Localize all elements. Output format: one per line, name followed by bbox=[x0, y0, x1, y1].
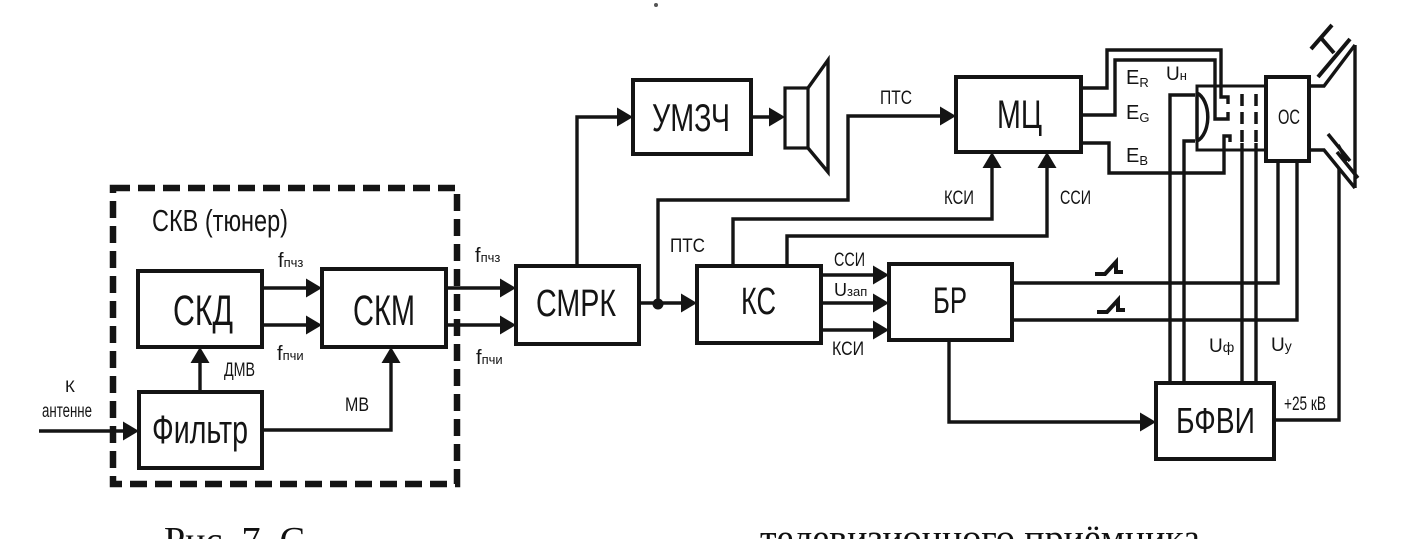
break symbol bottom bbox=[1328, 134, 1358, 178]
wire КС to БР ССИ bbox=[821, 273, 876, 276]
break symbol top bbox=[1311, 25, 1350, 77]
wire ДМВ Фильтр to СКД bbox=[198, 360, 201, 392]
svg-text:МВ: МВ bbox=[345, 395, 369, 416]
arrowhead КСИ КС-БР bbox=[873, 321, 889, 340]
arrowhead ПТС-МЦ bbox=[940, 107, 956, 126]
wire antenna input bbox=[39, 429, 126, 432]
sawtooth symbol 1 bbox=[1095, 262, 1123, 274]
svg-text:EG: EG bbox=[1126, 102, 1149, 125]
svg-text:ПТС: ПТС bbox=[670, 236, 705, 257]
wire СКМ to СМРК top bbox=[446, 286, 503, 289]
svg-text:БР: БР bbox=[933, 280, 967, 321]
wire audio СМРК to УМЗЧ bbox=[577, 117, 620, 266]
svg-text:+25 кВ: +25 кВ bbox=[1284, 394, 1326, 415]
wire ОС to БР line 1 bbox=[1012, 161, 1278, 283]
svg-text:Рис. 7. С: Рис. 7. С bbox=[164, 520, 305, 539]
svg-text:телевизионного приёмника: телевизионного приёмника bbox=[760, 518, 1200, 539]
arrowhead СМРК-КС bbox=[681, 294, 697, 313]
svg-text:Uн: Uн bbox=[1166, 64, 1187, 85]
wire КС to БР КСИ bbox=[821, 328, 876, 331]
wire МВ Фильтр to СКМ bbox=[262, 360, 391, 430]
svg-text:fпчз: fпчз bbox=[278, 250, 303, 272]
svg-text:БФВИ: БФВИ bbox=[1176, 400, 1255, 441]
wire СМРК to КС with node bbox=[639, 301, 684, 304]
svg-text:КС: КС bbox=[741, 281, 776, 323]
svg-text:fпчи: fпчи bbox=[277, 343, 304, 365]
svg-text:ER: ER bbox=[1126, 67, 1149, 90]
svg-text:fпчз: fпчз bbox=[475, 245, 500, 267]
arrowhead СКМ-СМРК top bbox=[500, 279, 516, 298]
arrowhead ССИ КС-БР bbox=[873, 266, 889, 285]
speaker bbox=[785, 88, 808, 148]
svg-text:УМЗЧ: УМЗЧ bbox=[652, 97, 730, 140]
CRT gun cathode D bbox=[1197, 93, 1208, 141]
svg-text:ДМВ: ДМВ bbox=[224, 360, 255, 381]
arrowhead СКМ-СМРК bottom bbox=[500, 316, 516, 335]
arrowhead КСИ-МЦ bbox=[983, 152, 1002, 168]
arrowhead antenna bbox=[123, 422, 139, 441]
wire КС to БР Uзап bbox=[821, 301, 876, 304]
block МЦ bbox=[956, 77, 1081, 152]
svg-text:СМРК: СМРК bbox=[536, 283, 616, 325]
arrowhead ССИ-МЦ bbox=[1038, 152, 1057, 168]
node dot ПТС junction bbox=[653, 299, 664, 310]
arrowhead СКД-СКМ bottom bbox=[306, 316, 322, 335]
block СКМ bbox=[322, 269, 446, 347]
wire E_G МЦ to CRT cathode bbox=[1081, 60, 1228, 119]
wire БР to БФВИ bbox=[949, 340, 1143, 422]
CRT neck rectangle bbox=[1197, 86, 1267, 150]
CRT screen edge bbox=[1353, 45, 1356, 188]
wire Uн heater left bbox=[1170, 95, 1195, 383]
block СМРК bbox=[516, 266, 639, 344]
svg-text:ССИ: ССИ bbox=[834, 250, 865, 271]
svg-text:fпчи: fпчи bbox=[476, 347, 503, 369]
block СКД bbox=[138, 271, 262, 347]
svg-text:ССИ: ССИ bbox=[1060, 188, 1091, 209]
wire СКМ to СМРК bottom bbox=[446, 323, 503, 326]
arrowhead СКД-СКМ top bbox=[306, 279, 322, 298]
svg-text:МЦ: МЦ bbox=[997, 93, 1042, 137]
scan speck bbox=[654, 3, 658, 7]
arrowhead Uзап КС-БР bbox=[873, 294, 889, 313]
CRT grid 1 dashed with wire Uф bbox=[1240, 94, 1244, 143]
wire УМЗЧ to speaker bbox=[751, 115, 773, 118]
wire СКД to СКМ top bbox=[262, 286, 309, 289]
tuner dashed box СКВ bbox=[113, 188, 457, 484]
svg-text:Uзап: Uзап bbox=[834, 280, 867, 300]
arrowhead МВ bbox=[382, 347, 401, 363]
wire +25 кВ БФВИ to CRT bbox=[1274, 168, 1339, 420]
block БР bbox=[889, 264, 1012, 340]
CRT funnel top bbox=[1309, 45, 1355, 86]
block КС bbox=[697, 266, 821, 343]
block БФВИ bbox=[1156, 383, 1274, 459]
svg-text:Фильтр: Фильтр bbox=[152, 408, 248, 452]
arrowhead speaker in bbox=[769, 108, 785, 127]
block ОС deflection yoke bbox=[1266, 77, 1309, 161]
block УМЗЧ bbox=[633, 80, 751, 154]
arrowhead БР-БФВИ bbox=[1140, 413, 1156, 432]
sawtooth symbol 2 bbox=[1097, 300, 1125, 312]
svg-text:антенне: антенне bbox=[42, 401, 92, 422]
wire Uн heater right bbox=[1184, 141, 1195, 383]
wire КСИ КС to МЦ bbox=[733, 165, 992, 266]
svg-text:Uф: Uф bbox=[1209, 336, 1234, 357]
svg-text:СКД: СКД bbox=[173, 287, 233, 335]
svg-text:СКМ: СКМ bbox=[353, 287, 415, 335]
svg-text:СКВ (тюнер): СКВ (тюнер) bbox=[152, 203, 288, 238]
wire СКД to СКМ bottom bbox=[262, 323, 309, 326]
wire ОС to БР line 2 bbox=[1012, 161, 1297, 320]
arrowhead УМЗЧ in bbox=[617, 108, 633, 127]
svg-text:EB: EB bbox=[1126, 145, 1148, 168]
svg-text:К: К bbox=[65, 377, 75, 396]
wire ПТС from node to МЦ bbox=[658, 116, 943, 303]
wire ССИ КС to МЦ bbox=[787, 165, 1047, 266]
CRT funnel bottom bbox=[1309, 150, 1355, 188]
wire E_R МЦ to CRT cathode bbox=[1081, 50, 1228, 104]
wire E_B МЦ to CRT cathode bbox=[1081, 136, 1230, 173]
block Фильтр bbox=[139, 392, 262, 468]
arrowhead ДМВ bbox=[191, 347, 210, 363]
CRT grid 2 dashed with wire Uу bbox=[1254, 94, 1258, 143]
svg-text:КСИ: КСИ bbox=[944, 188, 974, 209]
svg-text:ОС: ОС bbox=[1278, 106, 1300, 129]
svg-text:ПТС: ПТС bbox=[880, 88, 912, 109]
svg-text:КСИ: КСИ bbox=[832, 339, 864, 360]
svg-text:Uу: Uу bbox=[1271, 335, 1292, 356]
